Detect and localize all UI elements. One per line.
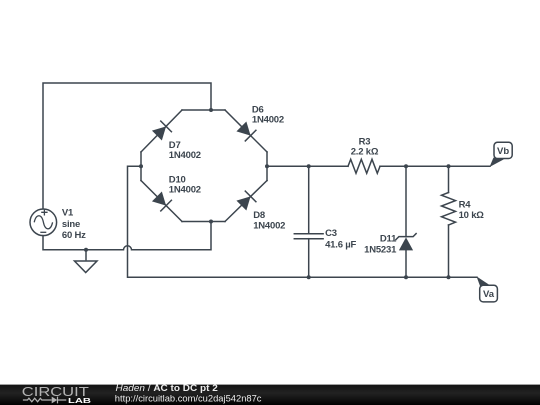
svg-text:1N4002: 1N4002	[169, 150, 201, 161]
ground symbol	[75, 250, 98, 273]
svg-text:60 Hz: 60 Hz	[62, 230, 86, 241]
flag Vb	[490, 142, 513, 167]
diode D6	[236, 121, 255, 140]
svg-text:LAB: LAB	[68, 396, 92, 405]
wire from bridge right node to R3	[267, 165, 348, 167]
svg-text:10 kΩ: 10 kΩ	[459, 210, 485, 221]
bridge octagon left edge wire	[140, 152, 142, 181]
svg-text:C3: C3	[325, 228, 337, 239]
wire from bridge left node down to bottom rail (Va net)	[128, 166, 478, 277]
svg-text:Vb: Vb	[497, 146, 509, 157]
node: bridge bottom junction	[209, 220, 213, 224]
svg-text:sine: sine	[62, 219, 80, 230]
D8 labels	[253, 210, 285, 232]
node: D11 top	[404, 164, 408, 168]
zener diode D11	[396, 166, 416, 277]
R3 labels	[351, 137, 379, 158]
CircuitLab logo resistor squiggle	[23, 398, 52, 402]
bridge octagon right edge wire	[266, 152, 268, 181]
svg-text:1N4002: 1N4002	[253, 220, 285, 231]
diode D7	[152, 121, 171, 140]
resistor R4	[442, 166, 456, 277]
node: bridge right junction	[265, 164, 269, 168]
bridge octagon top edge wire	[182, 109, 225, 111]
CircuitLab logo diode	[52, 397, 67, 404]
D11 labels	[364, 234, 397, 256]
svg-text:R4: R4	[459, 200, 472, 211]
node: bridge top junction	[209, 108, 213, 112]
svg-text:2.2 kΩ: 2.2 kΩ	[351, 147, 379, 158]
svg-text:D8: D8	[253, 210, 265, 221]
svg-text:41.6 µF: 41.6 µF	[325, 239, 356, 250]
svg-text:http://circuitlab.com/cu2daj54: http://circuitlab.com/cu2daj542n87c	[115, 393, 262, 403]
node: D11 bottom	[404, 275, 408, 279]
wire from V1 - terminal to bridge bottom node (hops over vertical wire)	[43, 222, 211, 250]
D7 labels	[169, 140, 201, 161]
svg-text:Va: Va	[483, 289, 495, 300]
node: bridge left junction	[139, 164, 143, 168]
svg-text:1N4002: 1N4002	[169, 185, 201, 196]
wire from R3 to Vb flag	[380, 165, 490, 167]
diode D10 wire (left node to bottom node)	[141, 181, 182, 222]
voltage source V1	[30, 209, 57, 236]
diode D8	[236, 191, 255, 210]
node: ground junction	[84, 248, 88, 252]
R4 labels	[459, 200, 485, 222]
node: R4 bottom	[447, 275, 451, 279]
node: C3 top	[307, 164, 311, 168]
diode D6 wire (top node to right node)	[225, 110, 267, 152]
node: R4 top	[447, 164, 451, 168]
svg-text:1N4002: 1N4002	[252, 115, 284, 126]
diode D8 wire (bottom node to right node)	[225, 181, 267, 222]
node: C3 bottom	[307, 275, 311, 279]
diode D10	[152, 191, 171, 210]
svg-text:Haden / AC to DC pt 2: Haden / AC to DC pt 2	[116, 383, 218, 393]
D6 labels	[252, 104, 284, 125]
C3 labels	[325, 228, 356, 250]
resistor R3	[348, 159, 380, 173]
wire from V1 + terminal up and across to bridge top node	[43, 83, 211, 209]
svg-text:V1: V1	[62, 208, 74, 219]
svg-text:1N5231: 1N5231	[364, 245, 397, 256]
diode D7 wire (left node to top node)	[141, 110, 182, 152]
flag Va	[477, 276, 498, 302]
D10 labels	[169, 174, 201, 195]
footer bar	[0, 385, 540, 405]
bridge octagon bottom edge wire	[182, 221, 225, 223]
capacitor C3	[294, 166, 323, 277]
V1 value labels	[62, 208, 86, 241]
svg-text:D11: D11	[380, 234, 397, 245]
